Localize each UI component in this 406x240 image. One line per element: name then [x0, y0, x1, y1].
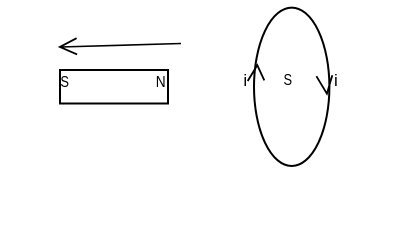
svg-text:S: S [60, 74, 69, 91]
svg-text:i: i [334, 71, 338, 90]
svg-text:i: i [243, 71, 247, 90]
svg-text:N: N [156, 74, 166, 91]
svg-text:S: S [284, 72, 293, 89]
